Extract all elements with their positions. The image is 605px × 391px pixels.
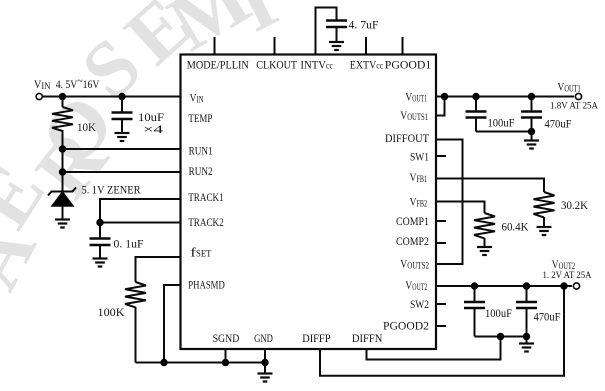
node junction RUN2 bbox=[59, 168, 66, 175]
svg-text:RUN2: RUN2 bbox=[189, 164, 213, 178]
wire RUN2 bbox=[63, 171, 181, 173]
node junction VOUT2-DIFFP bbox=[560, 282, 567, 289]
wire VOUTS1 bbox=[436, 97, 445, 116]
wire VFB2 bbox=[436, 202, 485, 214]
node junction 100uF-2 bbox=[471, 282, 478, 289]
svg-text:GND: GND bbox=[254, 331, 273, 345]
capacitor 470uF out2 bbox=[526, 286, 528, 302]
node junction RUN1 bbox=[59, 145, 66, 152]
svg-text:1. 2V AT 25A: 1. 2V AT 25A bbox=[543, 271, 592, 281]
svg-text:10K: 10K bbox=[77, 120, 96, 134]
wire DIFFN route bbox=[367, 337, 501, 360]
svg-text:cc: cc bbox=[376, 61, 383, 71]
svg-text:30.2K: 30.2K bbox=[561, 198, 588, 212]
capacitor 4.7uF bbox=[326, 19, 347, 22]
node junction PHASMD-rail bbox=[160, 359, 167, 366]
wire GND stub bbox=[264, 349, 266, 363]
wire SGND stub bbox=[225, 349, 227, 363]
svg-text:SET: SET bbox=[196, 249, 212, 259]
svg-text:IN: IN bbox=[41, 81, 50, 91]
svg-text:IN: IN bbox=[197, 95, 204, 105]
svg-text:×4: ×4 bbox=[143, 122, 163, 136]
zener D1 5.1V bbox=[48, 188, 76, 196]
wire DIFFP route bbox=[320, 286, 564, 376]
wire SW2 stub bbox=[436, 303, 446, 305]
ground 10uF bbox=[115, 132, 130, 134]
svg-text:100uF: 100uF bbox=[485, 306, 512, 320]
node junction SGND-rail bbox=[222, 359, 229, 366]
node VIN terminal bbox=[36, 93, 42, 99]
svg-text:CLKOUT: CLKOUT bbox=[256, 58, 297, 72]
ground 0.1uF bbox=[93, 257, 108, 259]
svg-text:PGOOD2: PGOOD2 bbox=[383, 319, 429, 333]
svg-text:cc: cc bbox=[326, 61, 333, 71]
ground 4.7uF bbox=[329, 41, 344, 43]
wire VIN rail bbox=[43, 96, 181, 98]
svg-text:INTV: INTV bbox=[300, 58, 326, 72]
ground zener bbox=[55, 218, 70, 220]
wire CLKOUT stub bbox=[274, 37, 276, 55]
svg-text:DIFFN: DIFFN bbox=[352, 331, 383, 345]
node VOUT2 terminal bbox=[573, 283, 579, 289]
svg-text:SW1: SW1 bbox=[410, 150, 429, 164]
resistor R 60.4K bbox=[474, 213, 495, 238]
node junction 470uF-2 bbox=[523, 282, 530, 289]
node junction VOUTS1 bbox=[441, 93, 448, 100]
node junction 100uF-1 bbox=[472, 93, 479, 100]
ground GND bbox=[264, 363, 266, 374]
svg-text:MODE/PLLIN: MODE/PLLIN bbox=[187, 58, 249, 72]
wire VOUT2 rail bbox=[436, 285, 572, 287]
svg-text:DIFFOUT: DIFFOUT bbox=[385, 131, 430, 145]
wire COMP2 stub bbox=[436, 242, 446, 244]
wire COMP1 stub bbox=[436, 220, 446, 222]
wire TRACK1 bbox=[100, 199, 181, 223]
svg-text:OUTS2: OUTS2 bbox=[407, 261, 429, 271]
wire bottom ground rail bbox=[136, 362, 266, 364]
svg-text:SGND: SGND bbox=[213, 331, 240, 345]
capacitor 0.1uF bbox=[99, 223, 101, 239]
node junction 470uF-1 bottom bbox=[528, 128, 535, 135]
node junction DIFFN-out2 bbox=[497, 333, 504, 340]
capacitor 100uF out2 bbox=[474, 286, 476, 302]
svg-text:1.8V AT 25A: 1.8V AT 25A bbox=[550, 102, 598, 112]
svg-text:FB1: FB1 bbox=[417, 174, 428, 184]
svg-text:OUT2: OUT2 bbox=[559, 261, 576, 271]
wire VOUT1 rail bbox=[436, 96, 574, 98]
svg-text:TRACK1: TRACK1 bbox=[188, 190, 224, 204]
svg-text:OUT1: OUT1 bbox=[412, 94, 427, 104]
wire DIFFOUT to VOUTS2 bbox=[436, 140, 463, 265]
resistor R 30.2K bbox=[534, 192, 555, 217]
svg-text:EXTV: EXTV bbox=[350, 58, 377, 72]
svg-text:OUT1: OUT1 bbox=[564, 84, 580, 94]
watermark AEROSEMI bbox=[0, 0, 290, 303]
wire fSET bbox=[136, 257, 181, 282]
wire EXTVcc stub bbox=[365, 37, 367, 55]
ground 60.4K bbox=[477, 246, 492, 248]
wire caps bottom out2 bbox=[475, 336, 527, 338]
svg-text:FB2: FB2 bbox=[417, 199, 428, 209]
svg-text:0. 1uF: 0. 1uF bbox=[114, 237, 144, 251]
svg-text:5. 1V ZENER: 5. 1V ZENER bbox=[82, 183, 141, 197]
wire left vertical rail bbox=[62, 97, 64, 108]
node junction TRACK bbox=[96, 219, 103, 226]
wire TRACK2 bbox=[100, 222, 181, 224]
svg-text:RUN1: RUN1 bbox=[189, 144, 213, 158]
svg-text:470uF: 470uF bbox=[545, 117, 572, 131]
node junction 470uF-1 bbox=[528, 93, 535, 100]
svg-text:470uF: 470uF bbox=[534, 310, 561, 324]
ground 30.2K bbox=[537, 226, 552, 228]
svg-text:TEMP: TEMP bbox=[188, 111, 212, 125]
resistor R 10K bbox=[52, 107, 73, 131]
wire SW1 stub bbox=[436, 155, 446, 157]
svg-text:SW2: SW2 bbox=[410, 297, 429, 311]
wire caps bottom out1 bbox=[476, 131, 532, 133]
wire PHASMD bbox=[164, 285, 181, 363]
svg-text:60.4K: 60.4K bbox=[502, 220, 529, 234]
wire MODE/PLLIN stub bbox=[214, 37, 216, 55]
svg-text:OUTS1: OUTS1 bbox=[407, 112, 428, 122]
node VOUT1 terminal bbox=[575, 93, 581, 99]
node junction VIN-10K bbox=[59, 93, 66, 100]
resistor R 100K bbox=[125, 282, 146, 307]
capacitor 100uF out1 bbox=[475, 97, 477, 112]
wire VFB1 bbox=[436, 179, 544, 193]
wire PGOOD2 stub bbox=[436, 325, 446, 327]
svg-text:100uF: 100uF bbox=[488, 116, 515, 130]
svg-text:TRACK2: TRACK2 bbox=[188, 215, 224, 229]
svg-text:DIFFP: DIFFP bbox=[302, 331, 331, 345]
capacitor 470uF out1 bbox=[531, 97, 533, 112]
wire RUN1 bbox=[63, 148, 181, 150]
ground out2 bbox=[526, 337, 528, 344]
op-amp U1 IC body bbox=[181, 55, 437, 350]
node junction VIN-10uF bbox=[118, 93, 125, 100]
svg-text:COMP1: COMP1 bbox=[396, 214, 429, 228]
node junction GND-rail bbox=[261, 359, 268, 366]
svg-text:4. 7uF: 4. 7uF bbox=[349, 18, 379, 32]
svg-text:COMP2: COMP2 bbox=[396, 234, 429, 248]
capacitor 10uF x4 bbox=[121, 97, 123, 113]
wire PGOOD1 stub bbox=[402, 37, 404, 55]
svg-text:100K: 100K bbox=[98, 305, 125, 319]
ground out1 bbox=[531, 132, 533, 141]
svg-text:PHASMD: PHASMD bbox=[188, 278, 225, 292]
svg-text:OUT2: OUT2 bbox=[412, 282, 427, 292]
svg-text:PGOOD1: PGOOD1 bbox=[385, 58, 432, 72]
wire INTVcc to 4.7uF bbox=[316, 8, 337, 55]
node junction 470uF-2 bottom bbox=[523, 333, 530, 340]
